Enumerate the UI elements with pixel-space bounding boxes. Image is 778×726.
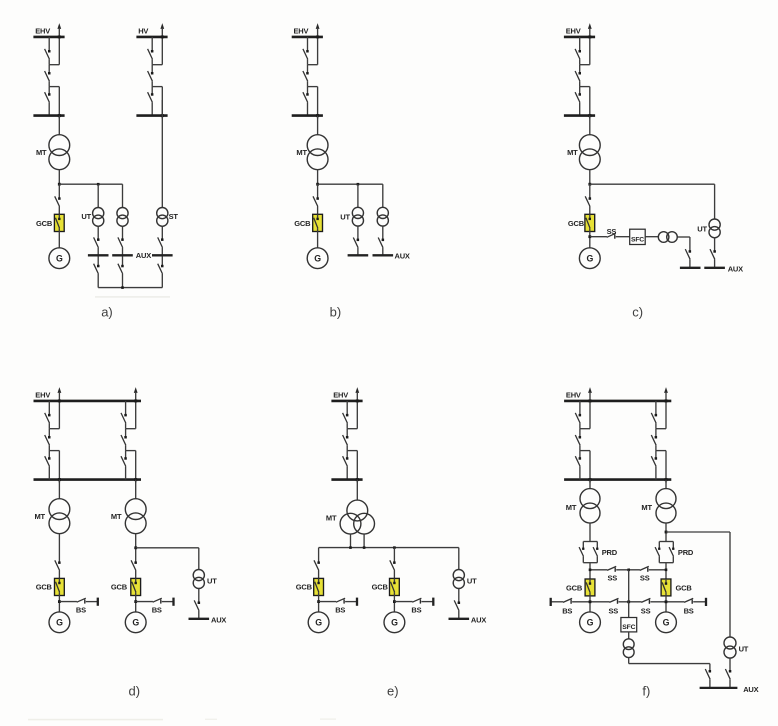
svg-text:MT: MT	[35, 512, 46, 521]
svg-text:UT: UT	[697, 225, 707, 234]
b wire	[317, 184, 319, 198]
e wire	[356, 480, 358, 501]
f wire	[665, 563, 667, 579]
c wire branch	[590, 236, 607, 238]
svg-text:AUX: AUX	[743, 685, 758, 694]
e EHV feeder disconnector	[343, 456, 349, 466]
e EHV feeder wire	[346, 429, 348, 438]
d unit2 wire	[134, 451, 137, 483]
f unit2 wire	[655, 445, 657, 450]
b generator G	[307, 248, 328, 269]
f unit1 wire	[579, 401, 581, 415]
b AUX busbar	[373, 254, 394, 256]
f wire	[729, 532, 731, 637]
b node	[357, 183, 360, 186]
d wire	[58, 596, 60, 612]
e EHV feeder wire stub	[347, 428, 357, 430]
svg-text:EHV: EHV	[566, 391, 581, 400]
d GCB2	[131, 578, 141, 595]
e EHV feeder circuit breaker	[343, 435, 349, 445]
c EHV feeder disconnector	[575, 49, 581, 59]
f wire	[629, 663, 710, 665]
e EHV feeder outgoing line arrow	[355, 387, 359, 429]
f wire	[628, 602, 630, 618]
c wire	[589, 184, 591, 198]
svg-text:BS: BS	[76, 606, 86, 615]
d unit2 outgoing line arrow	[134, 387, 138, 429]
f wire	[709, 679, 711, 688]
a AUX busbar	[88, 254, 109, 256]
b EHV feeder wire	[307, 102, 309, 115]
a wire	[161, 248, 163, 256]
c disconnector	[685, 249, 691, 259]
d unit1 wire	[48, 466, 50, 479]
scan remnant	[320, 718, 336, 719]
d AUX busbar	[189, 618, 210, 620]
a HV feeder wire	[161, 87, 164, 119]
f switch BS	[563, 598, 572, 603]
a EHV feeder disconnector	[45, 92, 51, 102]
b transformer UT	[377, 207, 388, 226]
e transformer MT 3-winding	[340, 500, 374, 534]
svg-text:SS: SS	[608, 573, 618, 582]
f unit2 wire stub	[656, 428, 666, 430]
d wire	[58, 571, 60, 579]
f SS row wire	[589, 569, 668, 572]
e EHV feeder wire	[346, 451, 348, 459]
a HV feeder wire	[151, 102, 153, 115]
b EHV feeder disconnector	[303, 49, 309, 59]
c switch SS	[607, 233, 616, 238]
e bus wire	[319, 546, 459, 549]
f AUX busbar	[700, 687, 738, 689]
b EHV feeder wire stub	[308, 64, 318, 66]
a wire	[97, 184, 99, 207]
b AUX busbar	[348, 254, 369, 256]
a disconnector	[94, 264, 100, 274]
svg-text:HV: HV	[138, 27, 148, 36]
d node UT junction	[134, 546, 137, 549]
a HV feeder wire	[151, 37, 153, 51]
f generator G1	[580, 612, 601, 633]
f unit2 wire stub	[656, 450, 666, 452]
svg-text:d): d)	[129, 684, 141, 699]
f unit2 disconnector	[651, 456, 657, 466]
a wire	[161, 226, 163, 239]
d wire UT branch	[136, 547, 199, 549]
svg-text:EHV: EHV	[35, 27, 50, 36]
c EHV feeder circuit breaker	[575, 71, 581, 81]
f wire	[628, 570, 630, 602]
e unit2 wire	[393, 596, 395, 612]
svg-text:MT: MT	[296, 148, 307, 157]
e unit1 wire	[318, 596, 320, 612]
svg-text:AUX: AUX	[471, 616, 486, 625]
a wire	[58, 232, 60, 248]
f wire	[589, 523, 591, 541]
b EHV feeder outgoing line arrow	[316, 23, 320, 65]
d disconnector	[131, 560, 137, 570]
c wire	[714, 184, 716, 219]
f termination	[705, 598, 707, 606]
b EHV feeder wire	[316, 87, 319, 119]
f disconnector	[705, 669, 711, 679]
c EHV feeder disconnector	[575, 92, 581, 102]
b wire	[317, 170, 319, 185]
f unit2 circuit breaker	[651, 435, 657, 445]
b wire	[357, 184, 359, 207]
d transformer MT1	[49, 499, 70, 534]
f switch SS	[609, 598, 618, 603]
a EHV feeder outgoing line arrow	[57, 23, 61, 65]
d unit2 wire	[125, 423, 127, 429]
svg-text:b): b)	[330, 304, 342, 319]
a wire	[122, 248, 124, 256]
d unit2 wire	[125, 445, 127, 450]
c EHV feeder busbar	[564, 36, 595, 39]
svg-text:AUX: AUX	[136, 251, 151, 260]
svg-text:G: G	[56, 618, 63, 628]
a wire	[58, 116, 60, 135]
svg-text:GCB: GCB	[36, 583, 53, 592]
a disconnector	[55, 196, 61, 206]
b EHV feeder wire	[307, 59, 309, 65]
e EHV feeder wire	[346, 401, 348, 415]
c wire	[689, 259, 691, 268]
e unit1 GCB	[314, 578, 324, 595]
f wire	[729, 679, 731, 688]
d wire	[135, 596, 137, 612]
f unit1 wire	[579, 445, 581, 450]
a transformer ST	[157, 208, 168, 227]
b node MT junction	[316, 183, 319, 186]
svg-text:PRD: PRD	[602, 548, 618, 557]
f unit1 wire	[579, 451, 581, 459]
svg-text:MT: MT	[326, 514, 337, 523]
a disconnector	[118, 237, 124, 247]
c wire	[714, 238, 716, 252]
c wire	[616, 236, 630, 238]
c wire	[677, 236, 690, 238]
d unit2 wire	[125, 451, 127, 459]
f PRD1	[579, 542, 598, 563]
d unit1 circuit breaker	[45, 435, 51, 445]
f unit2 wire	[655, 401, 657, 415]
f BS row wire	[551, 600, 706, 603]
a generator G	[49, 248, 70, 269]
svg-text:SFC: SFC	[622, 624, 635, 631]
svg-text:f): f)	[642, 684, 650, 699]
f unit1 outgoing line arrow	[588, 387, 592, 429]
a HV feeder wire stub	[152, 64, 162, 66]
e unit1 wire	[318, 571, 320, 579]
svg-text:GCB: GCB	[568, 219, 585, 228]
c wire	[589, 232, 591, 248]
c EHV feeder wire	[579, 87, 581, 95]
e AUX busbar	[449, 618, 470, 620]
c EHV feeder wire	[579, 37, 581, 51]
svg-text:MT: MT	[111, 512, 122, 521]
f transformer MT2	[656, 489, 676, 523]
f wire UT branch	[666, 531, 730, 533]
e transformer UT	[453, 570, 464, 589]
d unit2 disconnector	[121, 456, 127, 466]
c EHV feeder wire	[579, 102, 581, 115]
d unit1 wire	[48, 401, 50, 415]
f unit2 disconnector	[651, 413, 657, 423]
c node SS junction	[588, 235, 591, 238]
svg-text:BS: BS	[152, 606, 162, 615]
svg-text:SS: SS	[640, 573, 650, 582]
a GCB	[54, 214, 64, 231]
b disconnector	[353, 238, 359, 248]
d unit2 wire stub	[126, 428, 136, 430]
f switch SS	[607, 566, 616, 571]
e EHV feeder wire	[346, 445, 348, 450]
b wire	[382, 226, 384, 240]
a HV feeder wire	[151, 81, 153, 86]
c EHV feeder wire	[579, 65, 581, 74]
a wire	[122, 256, 124, 266]
c EHV feeder wire	[579, 59, 581, 65]
d transformer UT	[193, 570, 204, 589]
svg-text:GCB: GCB	[296, 583, 313, 592]
d unit1 disconnector	[45, 456, 51, 466]
d unit1 disconnector	[45, 413, 51, 423]
b wire	[357, 226, 359, 240]
a EHV feeder wire	[48, 65, 50, 74]
c EHV feeder wire stub	[580, 64, 590, 66]
e unit2 disconnector	[390, 560, 396, 570]
svg-text:MT: MT	[567, 148, 578, 157]
d switch BS	[77, 598, 86, 603]
a node MT junction	[58, 183, 61, 186]
e wire winding right	[363, 534, 365, 548]
a AUX busbar	[112, 254, 133, 256]
d wire	[135, 534, 137, 563]
f wire	[709, 664, 711, 672]
svg-text:MT: MT	[641, 503, 652, 512]
d generator G2	[125, 612, 146, 633]
d unit1 wire	[48, 445, 50, 450]
c AUX busbar	[680, 267, 701, 269]
d lower busbar	[34, 478, 142, 481]
f unit1 circuit breaker	[575, 435, 581, 445]
a wire	[58, 184, 60, 198]
b disconnector	[378, 238, 384, 248]
b wire	[317, 116, 319, 135]
e unit2 generator G	[384, 612, 405, 633]
b EHV feeder wire	[307, 65, 309, 74]
f unit2 outgoing line arrow	[664, 387, 668, 429]
svg-text:G: G	[132, 618, 139, 628]
svg-text:EHV: EHV	[333, 391, 348, 400]
f unit2 wire	[655, 451, 657, 459]
svg-text:EHV: EHV	[566, 27, 581, 36]
a wire	[161, 100, 163, 208]
a wire	[97, 248, 99, 256]
b wire	[357, 248, 359, 256]
scan remnant	[95, 296, 170, 297]
d wire	[135, 571, 137, 579]
a HV feeder busbar	[136, 36, 167, 39]
svg-text:UT: UT	[340, 213, 350, 222]
e unit1 generator G	[308, 612, 329, 633]
svg-text:G: G	[663, 618, 670, 628]
e wire	[458, 548, 460, 570]
b EHV feeder wire stub	[308, 86, 318, 88]
svg-text:BS: BS	[411, 606, 421, 615]
a bottom tie wire	[98, 286, 162, 289]
e EHV feeder wire	[346, 423, 348, 429]
c GCB	[585, 214, 595, 231]
c wire	[589, 116, 591, 135]
a EHV feeder wire	[48, 87, 50, 95]
d transformer MT2	[125, 499, 146, 534]
f unit1 wire	[579, 423, 581, 429]
svg-text:AUX: AUX	[211, 616, 226, 625]
a HV feeder circuit breaker	[148, 71, 154, 81]
d unit2 circuit breaker	[121, 435, 127, 445]
f unit1 wire stub	[580, 428, 590, 430]
d disconnector	[194, 600, 200, 610]
f unit1 disconnector	[575, 456, 581, 466]
svg-text:BS: BS	[562, 606, 572, 615]
f wire	[628, 632, 630, 639]
svg-text:UT: UT	[207, 577, 217, 586]
a EHV feeder wire	[58, 87, 61, 119]
f wire	[589, 596, 591, 612]
svg-text:SS: SS	[609, 606, 619, 615]
e wire	[458, 611, 460, 619]
a wire	[161, 256, 163, 266]
a EHV feeder wire stub	[49, 86, 59, 88]
svg-text:MT: MT	[36, 148, 47, 157]
a wire	[97, 274, 99, 288]
svg-text:GCB: GCB	[566, 584, 583, 593]
d unit2 wire stub	[126, 450, 136, 452]
d wire	[162, 601, 174, 603]
f generator G2	[656, 612, 677, 633]
scan remnant	[205, 719, 217, 720]
svg-text:UT: UT	[467, 577, 477, 586]
d generator G1	[49, 612, 70, 633]
a HV feeder disconnector	[148, 92, 154, 102]
svg-text:G: G	[587, 618, 594, 628]
b disconnector	[313, 196, 319, 206]
svg-text:GCB: GCB	[294, 219, 311, 228]
svg-text:GCB: GCB	[36, 219, 53, 228]
d node BS junction	[58, 600, 61, 603]
a EHV feeder wire	[48, 37, 50, 51]
a HV feeder wire	[151, 59, 153, 65]
f SFC box	[621, 618, 637, 632]
f PRD2	[655, 542, 674, 563]
f transformer SFC	[623, 639, 634, 658]
e unit2 wire	[393, 548, 395, 563]
f GCB2	[661, 579, 671, 596]
f switch SS	[640, 566, 649, 571]
d unit2 wire	[125, 401, 127, 415]
e unit1 termination	[356, 598, 358, 606]
f wire	[729, 658, 731, 671]
svg-text:UT: UT	[81, 212, 91, 221]
a EHV feeder circuit breaker	[45, 71, 51, 81]
svg-text:BS: BS	[684, 606, 694, 615]
d wire	[58, 480, 60, 499]
d wire BS branch	[136, 601, 153, 603]
d unit1 outgoing line arrow	[58, 387, 62, 429]
c transformer UT	[709, 219, 720, 238]
a HV feeder disconnector	[148, 49, 154, 59]
c EHV feeder lower busbar	[564, 114, 595, 117]
a HV feeder lower busbar	[136, 114, 167, 117]
c generator G	[579, 248, 600, 269]
d wire	[198, 548, 200, 570]
c EHV feeder wire	[588, 87, 591, 119]
e unit1 disconnector	[314, 560, 320, 570]
b EHV feeder busbar	[292, 36, 323, 39]
e unit2 GCB	[390, 578, 400, 595]
f wire	[665, 596, 667, 612]
e EHV feeder wire	[356, 451, 359, 483]
e unit2 wire	[393, 571, 395, 579]
f switch SS	[641, 598, 650, 603]
a wire	[58, 170, 60, 185]
svg-text:e): e)	[387, 684, 399, 699]
c EHV feeder outgoing line arrow	[588, 23, 592, 65]
b transformer MT	[307, 135, 328, 170]
a node	[97, 183, 100, 186]
f disconnector	[725, 669, 731, 679]
d wire	[86, 601, 98, 603]
f unit1 wire	[579, 466, 581, 479]
a wire	[97, 226, 99, 239]
c SFC box	[630, 229, 646, 244]
svg-text:GCB: GCB	[676, 584, 693, 593]
b EHV feeder circuit breaker	[303, 71, 309, 81]
f unit1 wire	[589, 451, 592, 483]
svg-text:SFC: SFC	[631, 236, 644, 243]
d unit1 wire	[48, 429, 50, 438]
c wire branch	[590, 183, 715, 185]
e unit2 wire BS branch	[394, 601, 412, 603]
a transformer UT2	[117, 208, 128, 227]
e unit1 switch BS	[336, 598, 345, 603]
c wire	[589, 207, 591, 215]
e EHV feeder busbar	[331, 400, 362, 403]
c transformer MT	[579, 135, 600, 170]
svg-text:UT: UT	[739, 644, 749, 653]
c transformer SFC	[658, 232, 677, 243]
b wire	[382, 248, 384, 256]
b EHV feeder wire	[307, 87, 309, 95]
svg-text:PRD: PRD	[678, 548, 694, 557]
a transformer UT	[93, 208, 104, 227]
a wire	[58, 207, 60, 215]
c node MT junction	[588, 183, 591, 186]
b wire branch	[318, 183, 383, 185]
d busbar	[34, 400, 142, 403]
a disconnector	[118, 264, 124, 274]
b wire	[317, 232, 319, 248]
b wire	[382, 184, 384, 207]
f node UT junction	[665, 531, 668, 534]
d wire	[135, 480, 137, 499]
a transformer MT	[49, 135, 70, 170]
a HV feeder wire	[151, 65, 153, 74]
f switch BS	[684, 598, 693, 603]
